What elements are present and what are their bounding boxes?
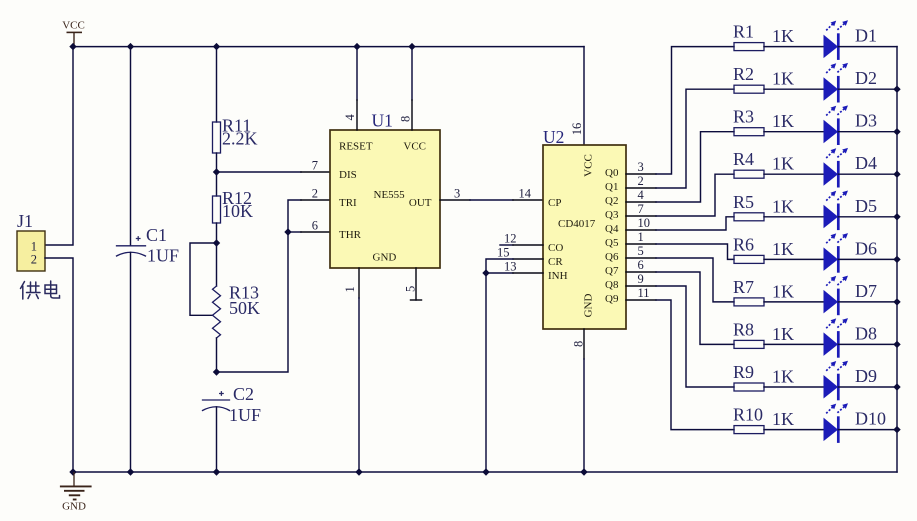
wire LED cathode rail bbox=[896, 47, 898, 472]
LED D5 bbox=[824, 191, 878, 231]
junction cathode rail row 3 bbox=[893, 128, 900, 135]
U2 pin 8 (GND) bbox=[583, 329, 585, 359]
svg-text:4: 4 bbox=[638, 188, 645, 202]
wire to U1 TRI bbox=[217, 200, 302, 372]
wire D5 to cathode rail bbox=[838, 216, 897, 218]
svg-text:1K: 1K bbox=[772, 324, 794, 344]
U1 pin 8 (VCC) bbox=[411, 47, 413, 100]
svg-text:D1: D1 bbox=[855, 26, 877, 46]
wire R6 to D6 bbox=[764, 258, 824, 260]
op-amp timer U1 NE555 body bbox=[330, 111, 440, 269]
wire VCC rail to R11 bbox=[216, 47, 218, 122]
LED D6 bbox=[824, 233, 878, 273]
connector J1 bbox=[17, 211, 45, 271]
svg-text:THR: THR bbox=[339, 229, 362, 241]
wire U2 pin 1 (Q5) to R6 bbox=[626, 244, 734, 259]
wire U2 INH bbox=[486, 272, 513, 274]
svg-text:GND: GND bbox=[373, 252, 397, 264]
svg-text:4: 4 bbox=[343, 114, 357, 121]
svg-text:1: 1 bbox=[638, 230, 644, 244]
junction INH tie bbox=[482, 269, 489, 276]
svg-text:1K: 1K bbox=[772, 26, 794, 46]
svg-text:3: 3 bbox=[454, 187, 460, 201]
resistor R10 bbox=[733, 405, 794, 434]
svg-text:VCC: VCC bbox=[583, 154, 595, 177]
junction cathode rail row 6 bbox=[893, 256, 900, 263]
wire D7 to cathode rail bbox=[838, 301, 897, 303]
svg-text:R10: R10 bbox=[733, 405, 763, 425]
svg-text:8: 8 bbox=[399, 116, 413, 122]
resistor R7 bbox=[733, 277, 794, 306]
wire R2 to D2 bbox=[764, 88, 824, 90]
wire DIS to U1 pin 7 bbox=[217, 171, 302, 173]
junction TRI-THR tie bbox=[284, 228, 291, 235]
svg-text:1UF: 1UF bbox=[229, 405, 261, 425]
ground symbol bbox=[60, 472, 92, 513]
svg-text:1K: 1K bbox=[772, 154, 794, 174]
svg-text:OUT: OUT bbox=[409, 197, 432, 209]
svg-text:GND: GND bbox=[62, 501, 86, 513]
U1 pin 5 stub bbox=[415, 268, 417, 300]
svg-text:C2: C2 bbox=[233, 384, 254, 404]
svg-text:D10: D10 bbox=[855, 409, 886, 429]
svg-text:NE555: NE555 bbox=[374, 189, 406, 201]
svg-text:R8: R8 bbox=[733, 319, 754, 339]
resistor R9 bbox=[733, 362, 794, 391]
resistor R8 bbox=[733, 319, 794, 348]
LED D9 bbox=[824, 361, 878, 401]
svg-text:R2: R2 bbox=[733, 64, 754, 84]
junction VCC rail / C1 bbox=[127, 43, 134, 50]
svg-text:1K: 1K bbox=[772, 367, 794, 387]
svg-text:15: 15 bbox=[497, 246, 510, 260]
junction VCC rail / U1 pin 8 bbox=[408, 43, 415, 50]
capacitor C1 bbox=[117, 225, 180, 266]
svg-text:Q9: Q9 bbox=[605, 293, 619, 305]
svg-text:5: 5 bbox=[638, 244, 644, 258]
svg-text:R6: R6 bbox=[733, 234, 754, 254]
svg-text:1K: 1K bbox=[772, 281, 794, 301]
wire CR/INH ground tie bbox=[513, 258, 543, 260]
svg-text:10: 10 bbox=[638, 216, 651, 230]
svg-text:8: 8 bbox=[572, 341, 586, 347]
svg-text:6: 6 bbox=[312, 219, 318, 233]
wire ground rail bbox=[73, 471, 897, 473]
wire C1 bottom lead bbox=[130, 253, 132, 473]
svg-text:J1: J1 bbox=[17, 211, 33, 231]
svg-text:1: 1 bbox=[343, 286, 357, 292]
svg-text:Q6: Q6 bbox=[605, 251, 619, 263]
svg-text:1K: 1K bbox=[772, 111, 794, 131]
wire R10 to D10 bbox=[764, 429, 824, 431]
wire U2 pin 7 (Q3) to R4 bbox=[626, 174, 734, 216]
resistor R11 bbox=[213, 116, 258, 154]
svg-text:R9: R9 bbox=[733, 362, 754, 382]
junction R11-R12 / U1 DIS bbox=[213, 168, 220, 175]
svg-text:3: 3 bbox=[638, 160, 644, 174]
junction R12-R13 / wiper loop bbox=[213, 239, 220, 246]
capacitor C2 bbox=[203, 384, 262, 425]
wire VCC to J1 pin 1 bbox=[45, 47, 73, 245]
svg-text:14: 14 bbox=[519, 187, 532, 201]
svg-text:R1: R1 bbox=[733, 22, 754, 42]
junction cathode rail row 9 bbox=[893, 383, 900, 390]
svg-text:2: 2 bbox=[638, 174, 644, 188]
junction cathode rail row 7 bbox=[893, 298, 900, 305]
wire D6 to cathode rail bbox=[838, 258, 897, 260]
wire R4 to D4 bbox=[764, 173, 824, 175]
wire U1 OUT to U2 CP bbox=[440, 199, 470, 201]
svg-text:C1: C1 bbox=[146, 225, 167, 245]
svg-text:CP: CP bbox=[548, 197, 561, 209]
svg-text:Q5: Q5 bbox=[605, 237, 619, 249]
svg-text:Q8: Q8 bbox=[605, 279, 619, 291]
svg-text:10K: 10K bbox=[222, 201, 253, 221]
svg-text:CO: CO bbox=[548, 242, 563, 254]
wire VCC top rail bbox=[73, 46, 584, 48]
svg-text:Q3: Q3 bbox=[605, 209, 619, 221]
wire U2 pin 4 (Q2) to R3 bbox=[626, 132, 734, 202]
svg-text:Q2: Q2 bbox=[605, 195, 618, 207]
junction VCC rail / R11 bbox=[213, 43, 220, 50]
resistor R1 bbox=[733, 22, 794, 51]
svg-text:7: 7 bbox=[638, 202, 644, 216]
svg-text:CD4017: CD4017 bbox=[558, 218, 596, 230]
svg-text:2.2K: 2.2K bbox=[222, 129, 258, 149]
wire R9 to D9 bbox=[764, 386, 824, 388]
svg-text:R3: R3 bbox=[733, 107, 754, 127]
junction cathode rail row 8 bbox=[893, 341, 900, 348]
wire U2 pin 10 (Q4) to R5 bbox=[626, 217, 734, 230]
U1 pin 4 (RESET) bbox=[356, 47, 358, 100]
resistor R3 bbox=[733, 107, 794, 136]
wire R5 to D5 bbox=[764, 216, 824, 218]
svg-text:16: 16 bbox=[570, 123, 584, 136]
resistor R5 bbox=[733, 192, 794, 221]
LED D7 bbox=[824, 276, 878, 316]
svg-text:1K: 1K bbox=[772, 69, 794, 89]
junction gnd / CR-INH tie bbox=[482, 468, 489, 475]
svg-text:1UF: 1UF bbox=[147, 246, 179, 266]
svg-text:7: 7 bbox=[312, 159, 318, 173]
junction gnd / C1 bbox=[127, 468, 134, 475]
svg-text:1K: 1K bbox=[772, 239, 794, 259]
svg-text:D5: D5 bbox=[855, 196, 877, 216]
svg-text:1K: 1K bbox=[772, 409, 794, 429]
junction VCC rail / U1 pin 4 bbox=[353, 43, 360, 50]
svg-text:D6: D6 bbox=[855, 238, 877, 258]
wire R12 to R13 bbox=[216, 223, 218, 243]
junction R13 / C2 / TRI branch bbox=[213, 368, 220, 375]
wire D4 to cathode rail bbox=[838, 173, 897, 175]
svg-text:Q4: Q4 bbox=[605, 223, 619, 235]
junction gnd / C2 bbox=[213, 468, 220, 475]
svg-text:CR: CR bbox=[548, 256, 563, 268]
svg-text:2: 2 bbox=[31, 253, 37, 267]
LED D3 bbox=[824, 105, 878, 145]
svg-text:D2: D2 bbox=[855, 68, 877, 88]
svg-text:INH: INH bbox=[548, 270, 568, 282]
resistor R6 bbox=[733, 234, 794, 263]
wire D2 to cathode rail bbox=[838, 88, 897, 90]
svg-text:1: 1 bbox=[31, 240, 37, 254]
svg-text:RESET: RESET bbox=[339, 141, 373, 153]
power symbol VCC bbox=[62, 20, 85, 47]
wire R11 to R12 bbox=[216, 153, 218, 196]
svg-text:6: 6 bbox=[638, 258, 644, 272]
wire D8 to cathode rail bbox=[838, 343, 897, 345]
svg-text:5: 5 bbox=[404, 286, 418, 292]
svg-text:D4: D4 bbox=[855, 153, 877, 173]
svg-text:DIS: DIS bbox=[339, 169, 357, 181]
wire C1 top lead bbox=[130, 47, 132, 245]
junction cathode rail row 10 bbox=[893, 426, 900, 433]
wire C2 bottom lead bbox=[216, 407, 218, 472]
wire U2 pin 2 (Q1) to R2 bbox=[626, 89, 734, 188]
wire D10 to cathode rail bbox=[838, 429, 897, 431]
svg-text:TRI: TRI bbox=[339, 197, 357, 209]
junction gnd / U1 pin 1 bbox=[355, 468, 362, 475]
U2 pin 12 (CO) stub bbox=[500, 244, 513, 246]
svg-text:R7: R7 bbox=[733, 277, 754, 297]
svg-text:D9: D9 bbox=[855, 366, 877, 386]
svg-text:50K: 50K bbox=[229, 298, 260, 318]
svg-text:D8: D8 bbox=[855, 323, 877, 343]
wire wiper loop bbox=[190, 243, 217, 315]
wire U2 pin 6 (Q7) to R8 bbox=[626, 272, 734, 344]
svg-text:GND: GND bbox=[583, 294, 595, 318]
svg-text:D7: D7 bbox=[855, 281, 877, 301]
svg-text:R4: R4 bbox=[733, 149, 754, 169]
svg-text:D3: D3 bbox=[855, 111, 877, 131]
svg-text:Q1: Q1 bbox=[605, 181, 618, 193]
LED D8 bbox=[824, 318, 878, 358]
junction cathode rail row 4 bbox=[893, 171, 900, 178]
svg-text:Q7: Q7 bbox=[605, 265, 619, 277]
wire R3 to D3 bbox=[764, 131, 824, 133]
LED D2 bbox=[824, 63, 878, 103]
svg-text:Q0: Q0 bbox=[605, 167, 619, 179]
junction gnd / left branch bbox=[69, 468, 76, 475]
svg-text:U1: U1 bbox=[372, 111, 393, 131]
wire R7 to D7 bbox=[764, 301, 824, 303]
wire U2 pin 3 (Q0) to R1 bbox=[626, 47, 734, 174]
junction cathode rail row 5 bbox=[893, 213, 900, 220]
resistor R2 bbox=[733, 64, 794, 93]
svg-text:1K: 1K bbox=[772, 196, 794, 216]
label 供电 (power supply) bbox=[21, 281, 60, 299]
svg-text:13: 13 bbox=[504, 260, 517, 274]
svg-text:VCC: VCC bbox=[62, 20, 85, 32]
svg-text:12: 12 bbox=[504, 232, 517, 246]
wire R1 to D1 bbox=[764, 46, 824, 48]
svg-text:VCC: VCC bbox=[403, 141, 426, 153]
counter U2 CD4017 body bbox=[543, 127, 626, 329]
svg-text:2: 2 bbox=[312, 187, 318, 201]
svg-text:11: 11 bbox=[638, 286, 650, 300]
resistor R12 bbox=[213, 188, 254, 223]
wire D9 to cathode rail bbox=[838, 386, 897, 388]
junction gnd / U2 pin 8 bbox=[580, 468, 587, 475]
svg-text:R5: R5 bbox=[733, 192, 754, 212]
wire U2 pin 9 (Q8) to R9 bbox=[626, 286, 734, 387]
junction VCC rail / J1 branch bbox=[69, 43, 76, 50]
wire U2 pin 16 drop bbox=[583, 47, 585, 145]
U1 pin 1 (GND) bbox=[358, 268, 360, 298]
junction cathode rail row 2 bbox=[893, 86, 900, 93]
wire D3 to cathode rail bbox=[838, 131, 897, 133]
wire U2 pin 5 (Q6) to R7 bbox=[626, 258, 734, 302]
wire D1 to cathode rail bbox=[838, 46, 897, 48]
wire to U1 THR bbox=[288, 231, 301, 233]
resistor R4 bbox=[733, 149, 794, 178]
wire J1 pin 2 to ground rail bbox=[45, 258, 73, 472]
svg-text:9: 9 bbox=[638, 272, 644, 286]
LED D1 bbox=[824, 20, 878, 60]
wire U2 pin 11 (Q9) to R10 bbox=[626, 300, 734, 430]
LED D10 bbox=[824, 403, 887, 443]
wire R13 to C2 bbox=[216, 338, 218, 372]
wire R8 to D8 bbox=[764, 343, 824, 345]
potentiometer R13 bbox=[213, 243, 261, 338]
LED D4 bbox=[824, 148, 878, 188]
svg-text:U2: U2 bbox=[543, 127, 564, 147]
